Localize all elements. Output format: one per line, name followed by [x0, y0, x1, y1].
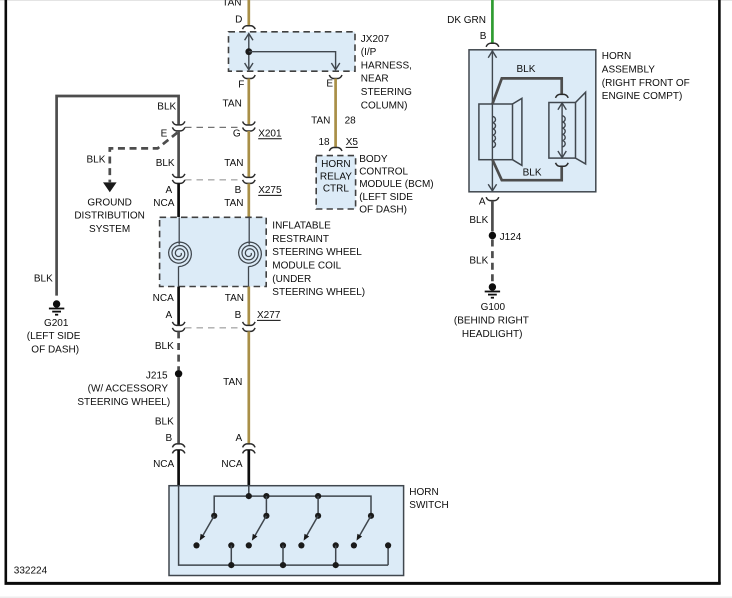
svg-text:OF DASH): OF DASH): [31, 344, 79, 355]
wire BLK jumper top (horn1 to horn2): [492, 64, 561, 104]
svg-text:NEAR: NEAR: [361, 74, 389, 85]
svg-text:STEERING WHEEL: STEERING WHEEL: [272, 247, 362, 258]
ground G100 (BEHIND RIGHT HEADLIGHT): [454, 283, 529, 340]
svg-text:CTRL: CTRL: [323, 184, 350, 195]
svg-text:NCA: NCA: [153, 198, 174, 209]
svg-text:B: B: [235, 310, 242, 321]
contact post 2: [280, 542, 286, 568]
svg-text:STEERING: STEERING: [361, 87, 412, 98]
svg-text:F: F: [238, 80, 244, 91]
svg-text:NCA: NCA: [153, 293, 174, 304]
switch S4: [351, 513, 374, 549]
svg-text:HEADLIGHT): HEADLIGHT): [462, 329, 523, 340]
svg-text:(W/ ACCESSORY: (W/ ACCESSORY: [88, 384, 169, 395]
svg-text:BLK: BLK: [155, 416, 174, 427]
contact post 1: [228, 542, 234, 568]
connector X277 (pin A left): [166, 310, 185, 331]
svg-text:B: B: [166, 433, 173, 444]
wire TAN JX207-E to BCM: [311, 79, 356, 148]
wire TAN module to X277: [225, 287, 249, 325]
dashed link X277 A to B: [185, 327, 243, 329]
svg-text:(LEFT SIDE: (LEFT SIDE: [359, 192, 413, 203]
svg-text:28: 28: [345, 115, 357, 126]
connector pin F (cup below JX207): [238, 75, 255, 91]
svg-text:MODULE (BCM): MODULE (BCM): [359, 179, 433, 190]
svg-text:(UNDER: (UNDER: [272, 274, 311, 285]
svg-text:OF DASH): OF DASH): [359, 205, 407, 216]
svg-text:BLK: BLK: [156, 158, 175, 169]
svg-text:G100: G100: [481, 302, 506, 313]
connector pin A (right, to horn switch): [236, 433, 256, 453]
off-page arrow to ground distribution system: [103, 182, 117, 192]
switch S2: [246, 496, 270, 548]
svg-text:DK GRN: DK GRN: [447, 15, 486, 26]
label BODY CONTROL MODULE (BCM) (LEFT SIDE OF DASH): [359, 154, 433, 216]
wire NCA module to X277: [153, 287, 179, 325]
svg-text:ENGINE COMPT): ENGINE COMPT): [602, 91, 683, 102]
wire top rail inside horn switch: [214, 496, 371, 516]
svg-text:NCA: NCA: [153, 459, 174, 470]
svg-text:BLK: BLK: [469, 215, 488, 226]
splice box JX207: [229, 32, 356, 71]
connector X277 (pin B right): [235, 310, 281, 331]
connector pin B (horn assembly): [480, 31, 499, 47]
svg-text:TAN: TAN: [224, 198, 243, 209]
wire BLK ground run (up from E, across, down to G201): [34, 96, 179, 296]
wire BLK dashed J124 to G100: [469, 240, 492, 284]
svg-text:TAN: TAN: [223, 99, 242, 110]
svg-text:332224: 332224: [14, 566, 48, 577]
svg-text:J124: J124: [500, 232, 522, 243]
svg-text:TAN: TAN: [225, 293, 244, 304]
svg-text:NCA: NCA: [221, 459, 242, 470]
wire NCA A to horn switch: [221, 450, 248, 486]
svg-text:BLK: BLK: [86, 155, 105, 166]
wire BLK jumper bottom (horn1 to horn2): [492, 160, 561, 181]
junction dots on top rail: [246, 493, 252, 499]
svg-text:GROUND: GROUND: [87, 197, 131, 208]
svg-text:(RIGHT FRONT OF: (RIGHT FRONT OF: [602, 78, 690, 89]
svg-text:SWITCH: SWITCH: [409, 500, 448, 511]
svg-text:X5: X5: [346, 137, 359, 148]
connector X275 (pin B): [235, 174, 282, 196]
connector pin B (left, to horn switch): [166, 433, 185, 453]
BCM horn relay ctrl box: [316, 156, 355, 209]
label HORN ASSEMBLY (RIGHT FRONT OF ENGINE COMPT): [602, 51, 690, 102]
svg-text:TAN: TAN: [222, 0, 241, 9]
ground G201 (LEFT SIDE OF DASH): [27, 300, 81, 355]
svg-text:RELAY: RELAY: [320, 171, 352, 182]
svg-text:18: 18: [318, 137, 330, 148]
svg-text:J215: J215: [146, 370, 168, 381]
connector pin E (cup below JX207): [326, 75, 342, 89]
svg-text:SYSTEM: SYSTEM: [89, 224, 130, 235]
dashed link X201 E to G: [185, 126, 243, 128]
label GROUND DISTRIBUTION SYSTEM: [74, 197, 145, 235]
svg-text:BLK: BLK: [469, 255, 488, 266]
inflatable restraint steering wheel module coil box: [160, 217, 267, 286]
horn assembly box: [469, 50, 596, 192]
wire TAN X277 to A: [223, 331, 249, 444]
svg-text:HORN: HORN: [409, 487, 438, 498]
wire BLK J215 to B: [155, 377, 179, 444]
wire inside JX207 (double-arrow to F): [245, 34, 253, 70]
svg-text:HORN: HORN: [602, 51, 631, 62]
wire DK GRN from top: [447, 0, 492, 43]
clockspring coil (left): [169, 217, 192, 286]
horn 2 coil (right speaker): [549, 92, 586, 164]
svg-text:G: G: [233, 129, 241, 140]
svg-text:BLK: BLK: [155, 341, 174, 352]
svg-text:A: A: [166, 185, 173, 196]
svg-text:JX207: JX207: [361, 34, 390, 45]
label HORN SWITCH: [409, 487, 448, 511]
svg-text:BLK: BLK: [157, 102, 176, 113]
svg-text:A: A: [166, 310, 173, 321]
label JX207 (I/P HARNESS, NEAR STEERING COLUMN): [361, 34, 412, 112]
svg-text:X275: X275: [258, 185, 282, 196]
svg-text:(I/P: (I/P: [361, 47, 377, 58]
label INFLATABLE RESTRAINT STEERING WHEEL MODULE COIL (UNDER STEERING WHEEL): [272, 221, 365, 299]
wire through horn 1 (B to A, double arrow): [488, 51, 496, 192]
wire JX207 branch to E: [249, 52, 340, 70]
svg-text:D: D: [235, 15, 242, 26]
svg-text:BODY: BODY: [359, 154, 388, 165]
svg-text:BLK: BLK: [34, 273, 53, 284]
svg-text:TAN: TAN: [311, 115, 330, 126]
contact post 4 (rail end): [385, 542, 391, 565]
svg-text:TAN: TAN: [224, 158, 243, 169]
junction J124: [489, 232, 522, 243]
wire left feed inside horn switch: [179, 486, 389, 565]
svg-text:INFLATABLE: INFLATABLE: [272, 221, 331, 232]
horn 2 connector cup (bottom): [556, 163, 569, 167]
svg-text:A: A: [479, 197, 486, 208]
svg-text:B: B: [480, 31, 487, 42]
wire TAN X275 to coil module: [224, 183, 249, 217]
svg-text:X201: X201: [258, 129, 282, 140]
wire BLK dashed branch to ground distribution: [86, 133, 177, 183]
connector pin D (cap at JX207 entry): [235, 15, 255, 30]
wire BLK E to X275: [156, 131, 179, 177]
svg-text:G201: G201: [44, 318, 69, 329]
pin 18 / connector X5 at BCM: [318, 137, 358, 151]
svg-text:CONTROL: CONTROL: [359, 167, 408, 178]
junction in JX207: [245, 48, 252, 55]
contact post 3: [333, 542, 339, 568]
svg-text:X277: X277: [257, 310, 281, 321]
svg-text:HARNESS,: HARNESS,: [361, 60, 412, 71]
clockspring coil (right): [239, 217, 262, 286]
junction J215 (W/ ACCESSORY STEERING WHEEL): [77, 370, 182, 408]
horn switch box: [169, 486, 404, 576]
horn 2 connector cap (top): [556, 94, 569, 98]
wire BLK A to J124: [469, 201, 492, 232]
horn 1 coil (left speaker): [479, 98, 522, 165]
svg-text:HORN: HORN: [321, 159, 350, 170]
svg-text:BLK: BLK: [517, 64, 536, 75]
wire right feed inside horn switch: [248, 486, 250, 496]
switch S1: [193, 513, 217, 549]
wire BLK dashed X277 to J215: [155, 331, 179, 370]
wire TAN from top of page: [222, 0, 249, 26]
svg-text:(LEFT SIDE: (LEFT SIDE: [27, 331, 81, 342]
svg-text:MODULE COIL: MODULE COIL: [272, 261, 341, 272]
svg-text:STEERING WHEEL): STEERING WHEEL): [77, 397, 170, 408]
switch S3: [298, 496, 321, 548]
wire TAN X201 to X275: [224, 131, 249, 177]
connector X275 (pin A): [166, 174, 185, 196]
svg-text:A: A: [236, 433, 243, 444]
svg-text:ASSEMBLY: ASSEMBLY: [602, 65, 655, 76]
svg-text:B: B: [235, 185, 242, 196]
svg-text:RESTRAINT: RESTRAINT: [272, 234, 329, 245]
connector X201 (pin G): [233, 122, 282, 140]
wire NCA B to horn switch: [153, 450, 179, 486]
svg-text:(BEHIND RIGHT: (BEHIND RIGHT: [454, 316, 529, 327]
wire TAN F to X201: [223, 79, 249, 125]
svg-text:E: E: [161, 128, 168, 139]
svg-text:COLUMN): COLUMN): [361, 100, 408, 111]
svg-text:E: E: [326, 78, 333, 89]
svg-text:TAN: TAN: [223, 377, 242, 388]
svg-text:DISTRIBUTION: DISTRIBUTION: [74, 211, 145, 222]
svg-text:STEERING WHEEL): STEERING WHEEL): [272, 287, 365, 298]
svg-text:BLK: BLK: [523, 167, 542, 178]
connector pin A (horn assembly bottom): [479, 197, 499, 208]
connector pin E (in-line on left BLK wire): [161, 121, 185, 139]
dashed link X275 A to B: [185, 179, 243, 181]
wire NCA X275 to coil module: [153, 183, 178, 217]
